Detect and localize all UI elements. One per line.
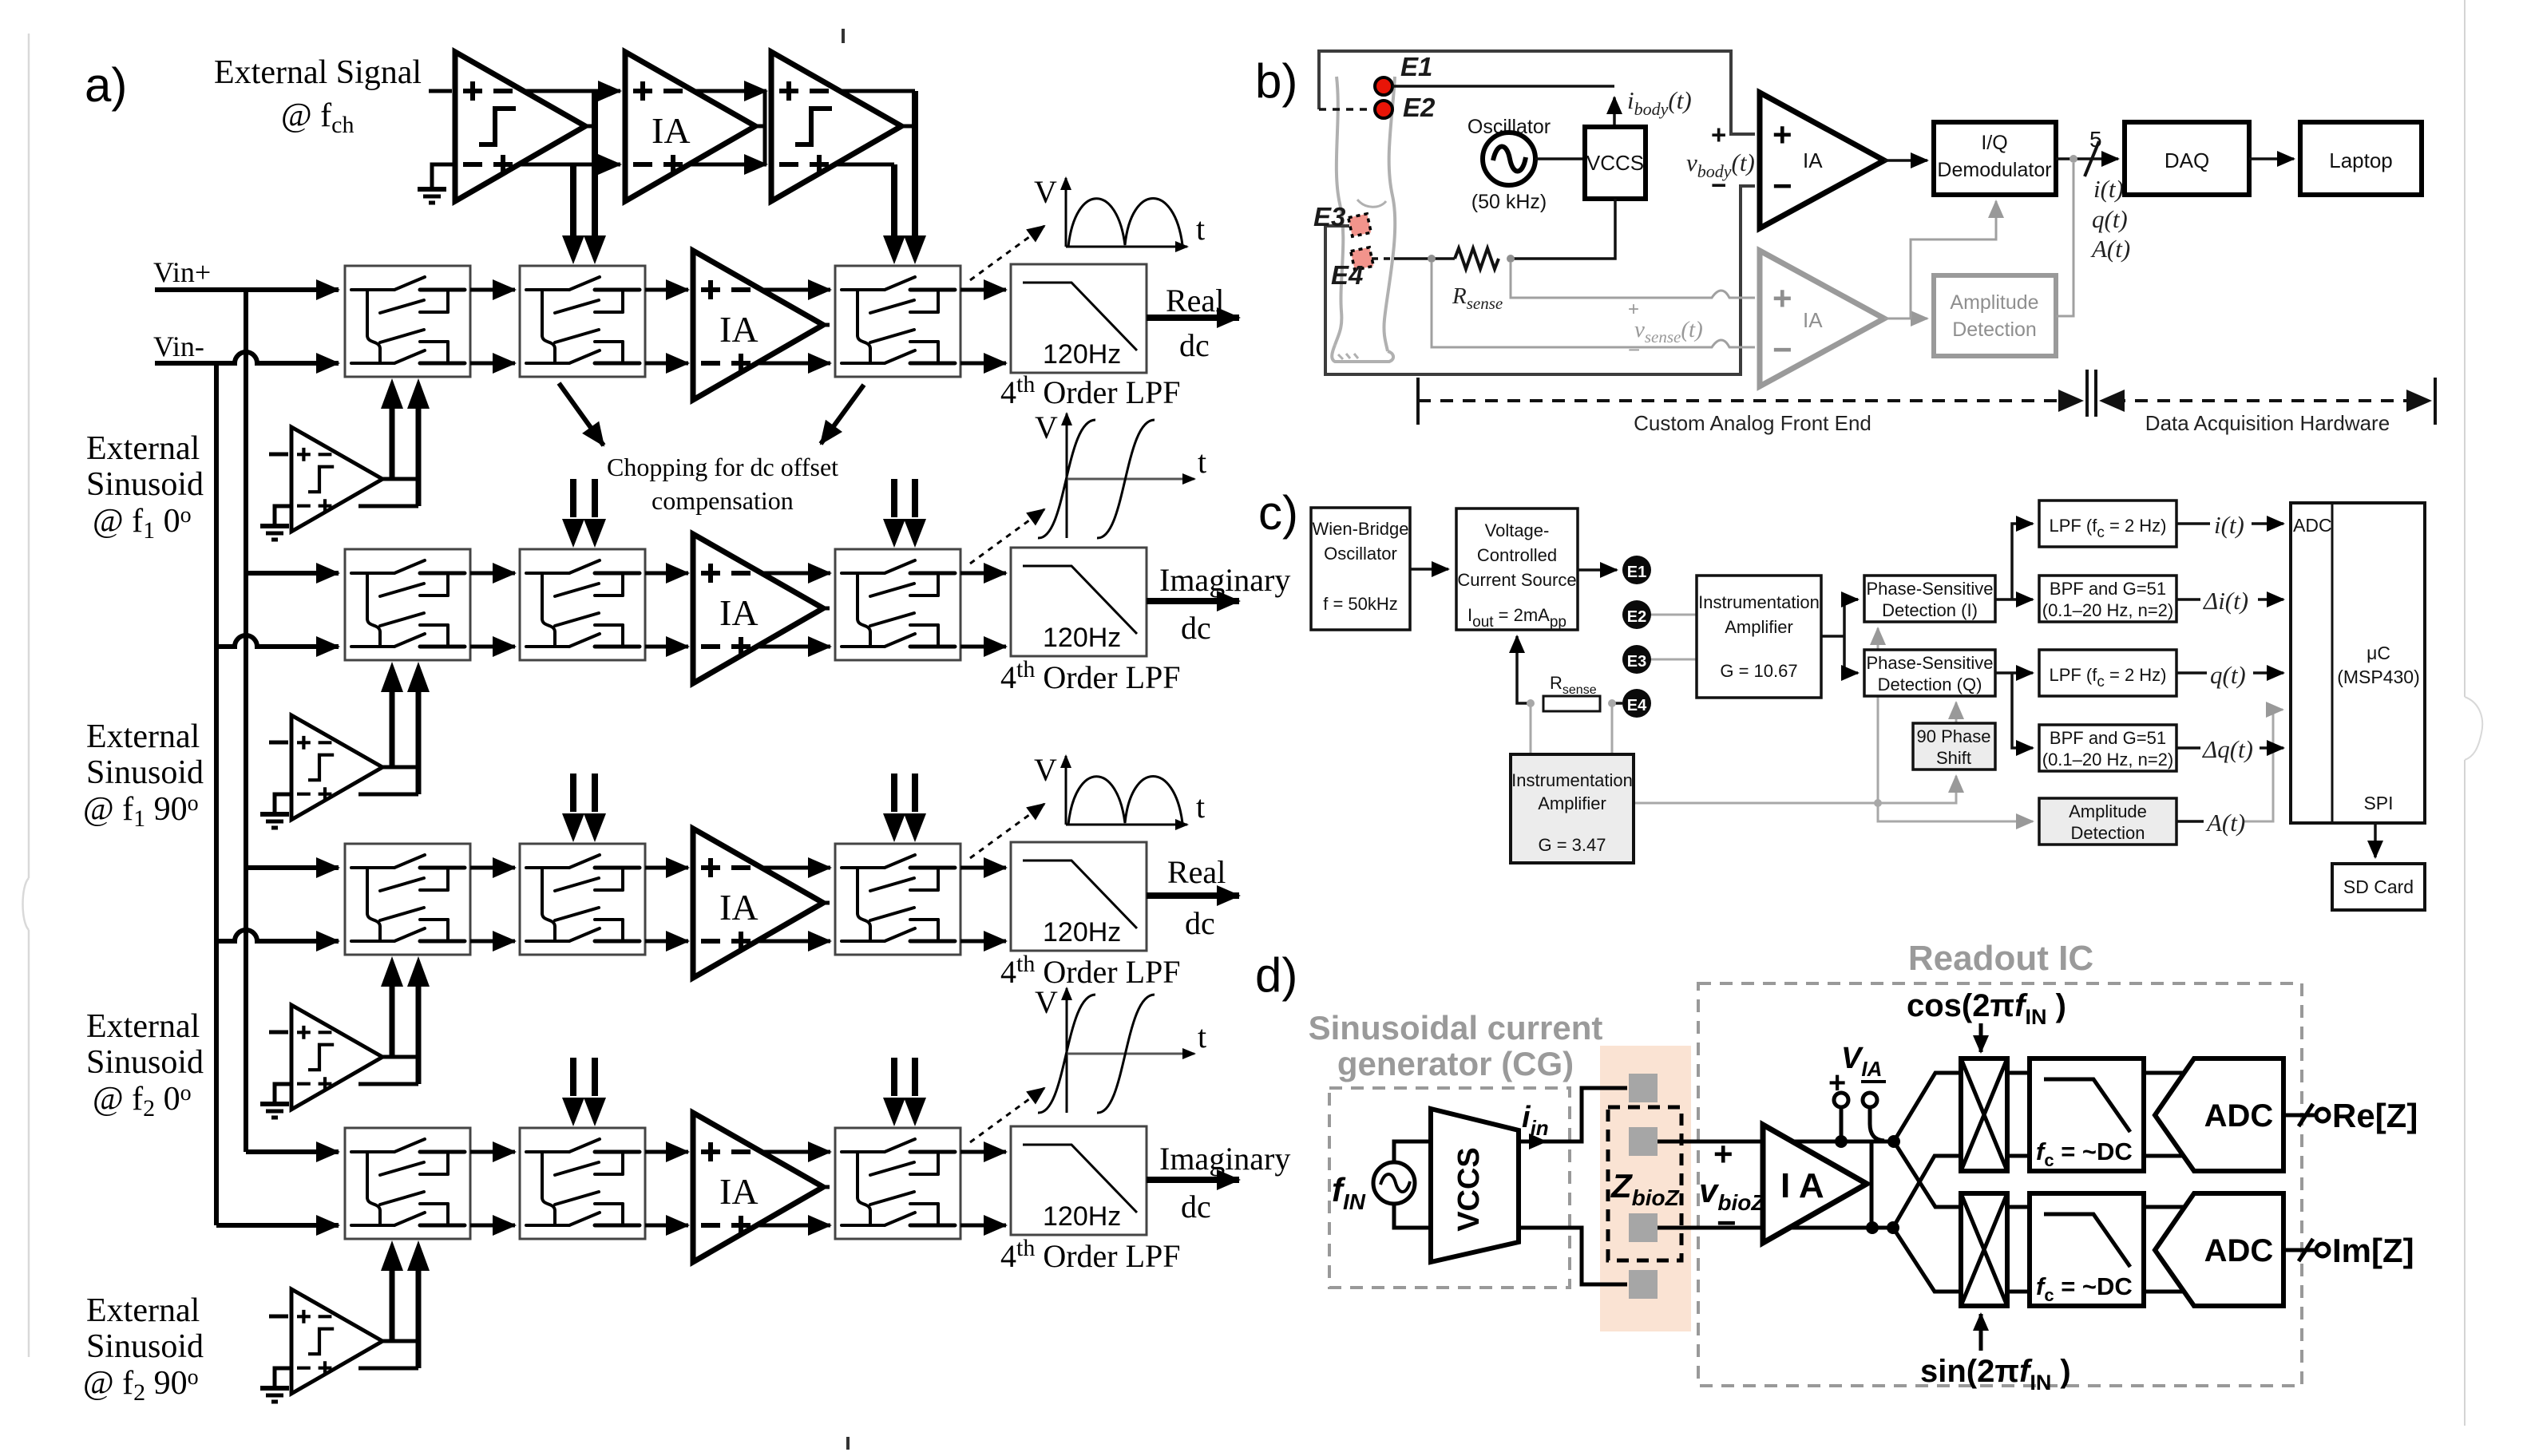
svg-text:Sinusoid: Sinusoid: [86, 1328, 204, 1365]
ROW 2: [345, 409, 1290, 695]
wire grey branch to I/Q bottom: [1911, 201, 1996, 318]
clock stubs row2 chopper2: [573, 479, 915, 517]
electrode pad 2: [1629, 1127, 1658, 1156]
dashed bracket data acquisition: [2113, 399, 2424, 402]
wire U3 upper out: [840, 89, 915, 93]
wire CLK2 - to ground: [275, 794, 291, 812]
svg-text:Detection (I): Detection (I): [1882, 600, 1978, 620]
leg sketch: [1332, 77, 1395, 362]
wire VCCS bottom to Rsense node: [1511, 199, 1615, 259]
mixer Q: [1961, 1193, 2007, 1306]
wire row2 IA-chopper3 upper: [760, 572, 830, 576]
svg-text:ADC: ADC: [2204, 1233, 2274, 1268]
wire row4 chopper3-LPF lower: [960, 1224, 1006, 1228]
svg-text:90 Phase: 90 Phase: [1917, 726, 1991, 746]
chopper row2-2: [520, 549, 645, 660]
wire row4 chopper3-LPF upper: [960, 1150, 1006, 1154]
op-amp IA (sense, grey): [1760, 251, 1884, 386]
svg-text:Sinusoid: Sinusoid: [86, 466, 204, 503]
wire cos arrow: [1979, 1023, 1983, 1052]
svg-text:+: +: [1772, 116, 1792, 153]
svg-text:(0.1–20 Hz, n=2): (0.1–20 Hz, n=2): [2042, 600, 2173, 620]
wire row1 chopper2 to IA upper: [645, 288, 688, 292]
svg-text:+: +: [1711, 120, 1726, 149]
bus slash 5: [2085, 141, 2099, 176]
wire row4 IA-chopper3 lower: [759, 1224, 830, 1228]
90 Phase Shift box: [1913, 723, 1995, 770]
svg-text:SPI: SPI: [2363, 793, 2393, 813]
wire ZbioZ- to IA: [1658, 1226, 1894, 1230]
electrode E1: [1622, 556, 1651, 584]
svg-text:f = 50kHz: f = 50kHz: [1323, 594, 1398, 614]
wire loop bottom (E3 to IA-): [1325, 186, 1755, 374]
svg-text:External: External: [86, 1008, 200, 1045]
wire Rsense right node to E4: [1612, 702, 1622, 705]
svg-text:DAQ: DAQ: [2165, 148, 2209, 172]
svg-text:G = 10.67: G = 10.67: [1720, 661, 1797, 681]
wire PSD(I) fork to LPF1/BPF1: [1995, 524, 2033, 599]
wire row1 chopper2 to IA lower: [645, 362, 688, 366]
svg-text:Sinusoid: Sinusoid: [86, 1044, 204, 1081]
wire CLK1 + stub: [269, 453, 288, 457]
svg-text:External: External: [86, 718, 200, 755]
chopper row4-3: [835, 1128, 960, 1239]
wire DAQ to Laptop: [2249, 157, 2294, 160]
wire clock drop to row1 chopper2 left: [570, 164, 576, 237]
svg-text:dc: dc: [1185, 905, 1215, 941]
svg-text:External: External: [86, 430, 200, 467]
svg-text:External Signal: External Signal: [214, 54, 422, 91]
wire loop top (E1/E2 to IA+): [1319, 51, 1755, 134]
wire E2 to IA: [1650, 614, 1697, 616]
wire clock drop to row1 chopper3 left: [891, 164, 897, 237]
black wires: [1410, 524, 2375, 857]
svg-text:External: External: [86, 1292, 200, 1329]
LPF fc=2Hz box 1: [2039, 500, 2176, 547]
wire row4 IA-chopper3 upper: [760, 1150, 830, 1154]
wire oscillator to VCCS: [1535, 157, 1585, 160]
wire source to VCCS bottom: [1394, 1204, 1431, 1228]
VIA terminals: [1834, 1093, 1848, 1107]
arrow to chopping text left: [559, 383, 604, 445]
svg-text:(50 kHz): (50 kHz): [1471, 191, 1547, 213]
wire BPF1 to di(t) to ADC: [2176, 598, 2283, 601]
wire I/Q to DAQ: [2056, 157, 2118, 160]
Wien-Bridge Oscillator box: [1311, 508, 1410, 630]
I/Q Demodulator box: [1934, 122, 2056, 195]
resistor Rsense: [1455, 248, 1499, 269]
svg-text:E3: E3: [1313, 202, 1345, 231]
source circle fIN: [1373, 1162, 1415, 1204]
svg-text:E1: E1: [1627, 564, 1646, 581]
wire CLK3 + stub: [269, 1031, 288, 1035]
wire row4 chopper2-IA upper: [645, 1150, 688, 1154]
svg-text:VCCS: VCCS: [1586, 151, 1644, 175]
wire row4 chopper2-IA lower: [645, 1224, 688, 1228]
LPF fc=2Hz box 2: [2039, 650, 2176, 696]
svg-text:t: t: [1198, 1019, 1206, 1054]
node dots on IA rails: [1835, 1135, 1848, 1148]
svg-text:dc: dc: [1181, 1189, 1211, 1225]
wire U1 - to ground: [432, 164, 455, 187]
svg-text:Sinusoidal current: Sinusoidal current: [1309, 1009, 1603, 1046]
Laptop box: [2300, 122, 2422, 195]
LPF Q box fc=~DC: [2030, 1193, 2144, 1306]
Phase-Sensitive Detection (Q) box: [1864, 650, 1995, 696]
clock stubs row4: [573, 1058, 915, 1096]
svg-text:Phase-Sensitive: Phase-Sensitive: [1867, 653, 1994, 673]
wire PSD(Q) fork to LPF2/BPF2: [1995, 673, 2033, 748]
svg-text:V: V: [1034, 174, 1057, 210]
wire A(t) to uC: [2244, 710, 2283, 821]
wire row4 dashed arrow to waveform: [970, 1088, 1044, 1142]
wire row2 IA-chopper3 lower: [759, 645, 830, 649]
wire U1 upper out to U2 +: [524, 89, 620, 93]
wires mixer I to LPF I: [2007, 1073, 2030, 1156]
svg-text:−: −: [1772, 167, 1792, 204]
wire ADC I out Re[Z]: [2283, 1114, 2315, 1118]
waveform sigmoid row4: [1038, 988, 1194, 1113]
svg-text:E4: E4: [1331, 260, 1363, 290]
svg-text:5: 5: [2089, 127, 2102, 152]
peach highlight: [1600, 1046, 1691, 1331]
wire IA out fork to PSDs: [1821, 599, 1858, 673]
wire row2 IA apex stub: [820, 607, 830, 611]
wire row3 LPF output Real dc: [1147, 892, 1239, 899]
svg-text:Detection: Detection: [2071, 823, 2145, 843]
wire CLK3 output verticals to row3 chopper1: [358, 1057, 418, 1084]
electrode E3 (gel pad): [1349, 214, 1371, 236]
wire CLK1 output verticals to row1 chopper1: [358, 479, 418, 506]
ROW 3: [345, 752, 1239, 990]
Amplitude Detection box grey: [1934, 275, 2056, 356]
svg-text:Instrumentation: Instrumentation: [1511, 770, 1633, 790]
wire grey IA-3.47 output bus: [1634, 776, 1956, 803]
svg-text:+: +: [1772, 279, 1792, 317]
wire WBO to VCCS: [1410, 568, 1448, 571]
wire U3 lower out: [834, 163, 894, 167]
wire Vin- input with hop: [155, 352, 339, 363]
LPF row3: [1011, 842, 1147, 951]
ZbioZ dashed box: [1608, 1107, 1681, 1260]
node dot grey on output: [2069, 155, 2077, 163]
wire row2 LPF output Imaginary dc: [1147, 598, 1239, 604]
wire row3 lower branch with hop: [216, 930, 339, 941]
wire row1 chopper3 to LPF lower: [960, 362, 1006, 366]
chopper row1-2: [520, 266, 645, 377]
wire row3 chopper2-IA upper: [645, 866, 688, 870]
svg-text:@ f2 0o: @ f2 0o: [93, 1081, 192, 1122]
VCCS trapezoid: [1431, 1109, 1519, 1262]
op-amp IA row1: [693, 251, 823, 400]
svg-text:Real: Real: [1167, 854, 1226, 890]
wire CLK2 output verticals to row2 chopper1: [358, 767, 418, 794]
Rsense resistor: [1543, 696, 1600, 711]
Amplitude Detection box: [2039, 798, 2176, 845]
node dots: [1527, 699, 1535, 707]
wire clock drop to row1 chopper2 right: [592, 91, 598, 237]
fan wires to mixers: [1894, 1073, 1961, 1141]
svg-text:E1: E1: [1400, 52, 1432, 81]
ground CLK3: [260, 1104, 289, 1118]
wire row3 chopper1-chopper2 lower: [470, 940, 515, 944]
svg-text:Custom Analog Front End: Custom Analog Front End: [1634, 411, 1871, 435]
arrow to chopping text right: [821, 385, 864, 444]
wire CLK4 + stub: [269, 1315, 288, 1319]
DAQ box: [2125, 122, 2249, 195]
svg-text:I A: I A: [1780, 1166, 1824, 1205]
wire row3 chopper1-chopper2 upper: [470, 866, 515, 870]
svg-text:E4: E4: [1627, 697, 1647, 714]
svg-text:V: V: [1035, 409, 1058, 445]
svg-text:Imaginary: Imaginary: [1159, 562, 1290, 598]
chopper row2-3: [835, 549, 960, 660]
svg-text:Controlled: Controlled: [1477, 545, 1557, 565]
node dot right of Rsense: [1507, 255, 1515, 263]
wire row1 IA apex stub: [820, 323, 830, 327]
svg-text:Sinusoid: Sinusoid: [86, 754, 204, 791]
svg-text:Instrumentation: Instrumentation: [1698, 592, 1820, 612]
comparator CLK3 (f2 0): [291, 1005, 382, 1110]
wire ADC Q out Im[Z]: [2283, 1248, 2315, 1252]
svg-text:V: V: [1034, 752, 1057, 788]
wire BPF2 to dq(t) to ADC: [2176, 746, 2283, 750]
ground CLK4: [260, 1388, 289, 1402]
wire E2 dashed stub: [1319, 108, 1373, 111]
svg-text:V: V: [1035, 984, 1058, 1020]
wire U2 apex stub: [755, 91, 765, 164]
LPF row1: [1011, 264, 1147, 373]
electrode E3: [1622, 645, 1651, 674]
svg-text:−: −: [1628, 338, 1640, 362]
svg-text:−: −: [1772, 330, 1792, 368]
wire row3 IA apex stub: [820, 901, 830, 905]
svg-text:μC: μC: [2367, 643, 2390, 663]
svg-text:b): b): [1255, 54, 1297, 108]
wire VCCS to E1: [1578, 568, 1617, 572]
page artifact faint column separator lines: [2464, 0, 2466, 697]
wire E3 to IA: [1650, 659, 1697, 661]
svg-text:Im[Z]: Im[Z]: [2332, 1232, 2414, 1269]
wire row1 chopper1 to chopper2 upper: [470, 288, 515, 292]
wire row2 lower branch with hop: [216, 635, 339, 647]
wire row3 chopper3-LPF lower: [960, 940, 1006, 944]
op-amp IA (body, black): [1760, 93, 1884, 228]
svg-text:VCCS: VCCS: [1452, 1147, 1486, 1232]
svg-text:ADC: ADC: [2204, 1098, 2274, 1134]
wire row2 chopper3-LPF lower: [960, 645, 1006, 649]
wire row1 chopper3 to LPF upper: [960, 288, 1006, 292]
svg-text:@ f1 0o: @ f1 0o: [93, 503, 192, 544]
svg-text:Real: Real: [1166, 283, 1224, 318]
op-amp IA row3: [693, 829, 823, 978]
wire Vin+ vertical bus: [244, 290, 248, 1152]
IA output rail: [1870, 1141, 1874, 1228]
ground CLK1: [260, 526, 289, 540]
wire vsense+ (grey): [1511, 263, 1755, 298]
wire E3 stub: [1325, 224, 1349, 227]
wire row1 IA to chopper3 upper: [760, 288, 830, 292]
comparator CLK4 (f2 90): [291, 1289, 382, 1394]
svg-text:Shift: Shift: [1936, 748, 1971, 768]
svg-text:A(t): A(t): [2090, 235, 2130, 263]
svg-text:E2: E2: [1627, 608, 1646, 626]
wire CLK4 output verticals to row4 chopper1: [358, 1341, 418, 1368]
comparator U1 (top chain, fch): [455, 52, 585, 201]
comparator CLK2 (f1 90): [291, 715, 382, 820]
svg-text:t: t: [1198, 444, 1206, 480]
svg-text:ADC: ADC: [2293, 515, 2332, 536]
op-amp IA U2 (top chain): [625, 52, 755, 201]
mixer I (chopper modulator): [1961, 1058, 2007, 1171]
electrode E4 (gel pad): [1351, 247, 1373, 270]
uC MSP430 box with ADC column: [2291, 503, 2425, 823]
wire IA out to I/Q: [1884, 159, 1927, 162]
electrode pad 1: [1629, 1074, 1658, 1102]
wire row2 chopper1-chopper2 lower: [470, 645, 515, 649]
wire E4 dashed stub: [1372, 257, 1396, 260]
Instrumentation Amplifier G=10.67 box: [1697, 576, 1821, 698]
SD Card box: [2332, 864, 2425, 910]
wire row3 IA-chopper3 lower: [759, 940, 830, 944]
svg-text:SD Card: SD Card: [2343, 876, 2414, 897]
svg-text:(0.1–20 Hz, n=2): (0.1–20 Hz, n=2): [2042, 750, 2173, 770]
svg-text:Imaginary: Imaginary: [1159, 1141, 1290, 1177]
electrode E2: [1622, 600, 1651, 629]
node dot left of Rsense: [1428, 255, 1436, 263]
wire row2 chopper2-IA lower: [645, 645, 688, 649]
svg-text:Vin-: Vin-: [153, 330, 204, 362]
op-amp IA row2: [693, 534, 823, 683]
svg-text:A(t): A(t): [2205, 809, 2245, 837]
electrode pad 3: [1629, 1213, 1658, 1242]
svg-text:Amplitude: Amplitude: [2069, 801, 2147, 821]
wire SPI to SD Card: [2374, 823, 2377, 857]
waveform rectified row3: [1066, 756, 1187, 825]
wire row4 LPF output Imaginary dc: [1147, 1177, 1239, 1183]
svg-text:Oscillator: Oscillator: [1324, 544, 1397, 564]
svg-text:dc: dc: [1181, 610, 1211, 646]
svg-text:a): a): [85, 58, 127, 112]
wire row4 IA apex stub: [820, 1185, 830, 1189]
chopper row3-2: [520, 844, 645, 955]
svg-text:(MSP430): (MSP430): [2337, 667, 2420, 687]
wire U3 apex stub: [901, 125, 915, 129]
wire grey to Amplitude Detection: [1878, 803, 2033, 821]
ground for U1: [418, 189, 446, 203]
svg-text:BPF and G=51: BPF and G=51: [2050, 579, 2166, 599]
svg-text:E2: E2: [1403, 93, 1436, 122]
svg-text:d): d): [1255, 948, 1297, 1002]
wire U2 lower out to U3 -: [688, 163, 766, 167]
wire row4 upper branch: [246, 1149, 339, 1154]
op-amp IA: [1763, 1125, 1867, 1243]
wire row4 chopper1-chopper2 upper: [470, 1150, 515, 1154]
ROW 4: [345, 984, 1290, 1274]
svg-text:Amplifier: Amplifier: [1725, 617, 1793, 637]
chopper row3-1: [345, 844, 470, 955]
electrode E4: [1622, 689, 1651, 718]
wire ibody arrow from VCCS top: [1613, 97, 1616, 127]
wire row2 chopper3-LPF upper: [960, 572, 1006, 576]
svg-text:Δi(t): Δi(t): [2202, 587, 2248, 615]
svg-text:BPF and G=51: BPF and G=51: [2050, 728, 2166, 748]
svg-text:generator (CG): generator (CG): [1337, 1045, 1574, 1082]
wire CLK2 + stub: [269, 741, 288, 745]
svg-text:G = 3.47: G = 3.47: [1538, 835, 1606, 855]
wire row2 dashed arrow to waveform: [970, 509, 1044, 564]
comparator CLK1 (f1 0): [291, 427, 382, 532]
svg-text:Δq(t): Δq(t): [2201, 735, 2253, 763]
comparator U3 (top chain): [771, 52, 901, 201]
svg-text:Chopping for dc offset: Chopping for dc offset: [607, 453, 838, 481]
waveform rectified row1: [1066, 178, 1187, 247]
svg-text:t: t: [1196, 211, 1205, 247]
chopper row3-3: [835, 844, 960, 955]
Readout IC dashed box: [1698, 983, 2302, 1386]
ROW 1: [345, 174, 1239, 410]
svg-text:i(t): i(t): [2093, 175, 2124, 203]
wire U2 upper out to U3 +: [694, 89, 766, 93]
svg-text:Vin+: Vin+: [153, 256, 211, 288]
wire return to electrode 4: [1519, 1228, 1627, 1284]
svg-text:−: −: [1717, 1204, 1737, 1241]
svg-text:Wien-Bridge: Wien-Bridge: [1312, 519, 1408, 539]
wires LPF I to ADC I: [2144, 1073, 2184, 1156]
wire row3 upper branch: [246, 865, 339, 870]
chopper row4-1: [345, 1128, 470, 1239]
wire row1 chopper1 to chopper2 lower: [470, 362, 515, 366]
svg-text:Readout IC: Readout IC: [1908, 939, 2093, 978]
wire CLK3 - to ground: [275, 1084, 291, 1102]
oscillator source: [1483, 133, 1535, 185]
svg-text:dc: dc: [1179, 327, 1210, 363]
wires mixer Q to LPF Q: [2007, 1207, 2030, 1292]
svg-text:Re[Z]: Re[Z]: [2332, 1097, 2418, 1134]
wire iin out to electrode 1: [1519, 1140, 1546, 1144]
wire row4 chopper1-chopper2 lower: [470, 1224, 515, 1228]
wire ZbioZ+ to IA: [1658, 1140, 1895, 1144]
svg-text:q(t): q(t): [2210, 661, 2246, 689]
wire grey dots to IA-3.47: [1531, 703, 1612, 754]
LPF row2: [1011, 548, 1147, 656]
svg-text:+: +: [1713, 1135, 1733, 1173]
BPF box 2: [2039, 725, 2176, 771]
VCCS box: [1585, 127, 1646, 199]
electrode E1: [1375, 77, 1392, 95]
wire Rsense left node to VCCS bottom: [1517, 636, 1531, 703]
svg-text:IA: IA: [1803, 148, 1823, 172]
chopper row1-1: [345, 266, 470, 377]
svg-text:t: t: [1196, 789, 1205, 825]
wire U1 apex stub: [585, 125, 595, 129]
svg-text:IA: IA: [1803, 308, 1823, 332]
wire row3 dashed arrow to waveform: [970, 804, 1044, 858]
svg-text:Detection: Detection: [1952, 318, 2037, 341]
ADC I chevron: [2155, 1058, 2283, 1171]
wire CLK1 - to ground: [275, 506, 291, 524]
wire row3 chopper2-IA lower: [645, 940, 688, 944]
wire row1 LPF output Real dc: [1147, 315, 1239, 321]
grey sense wires (drawn beneath boxes): [1531, 615, 2283, 821]
wire row3 IA-chopper3 upper: [760, 866, 830, 870]
wire grey 90 Phase Shift to PSD(Q): [1955, 702, 1958, 723]
wire Vin- vertical bus: [214, 363, 219, 1225]
electrode pad 4: [1629, 1270, 1658, 1299]
wire grey up to PSD(I): [1877, 628, 1879, 803]
svg-text:Voltage-: Voltage-: [1485, 520, 1550, 540]
svg-text:compensation: compensation: [652, 486, 794, 515]
